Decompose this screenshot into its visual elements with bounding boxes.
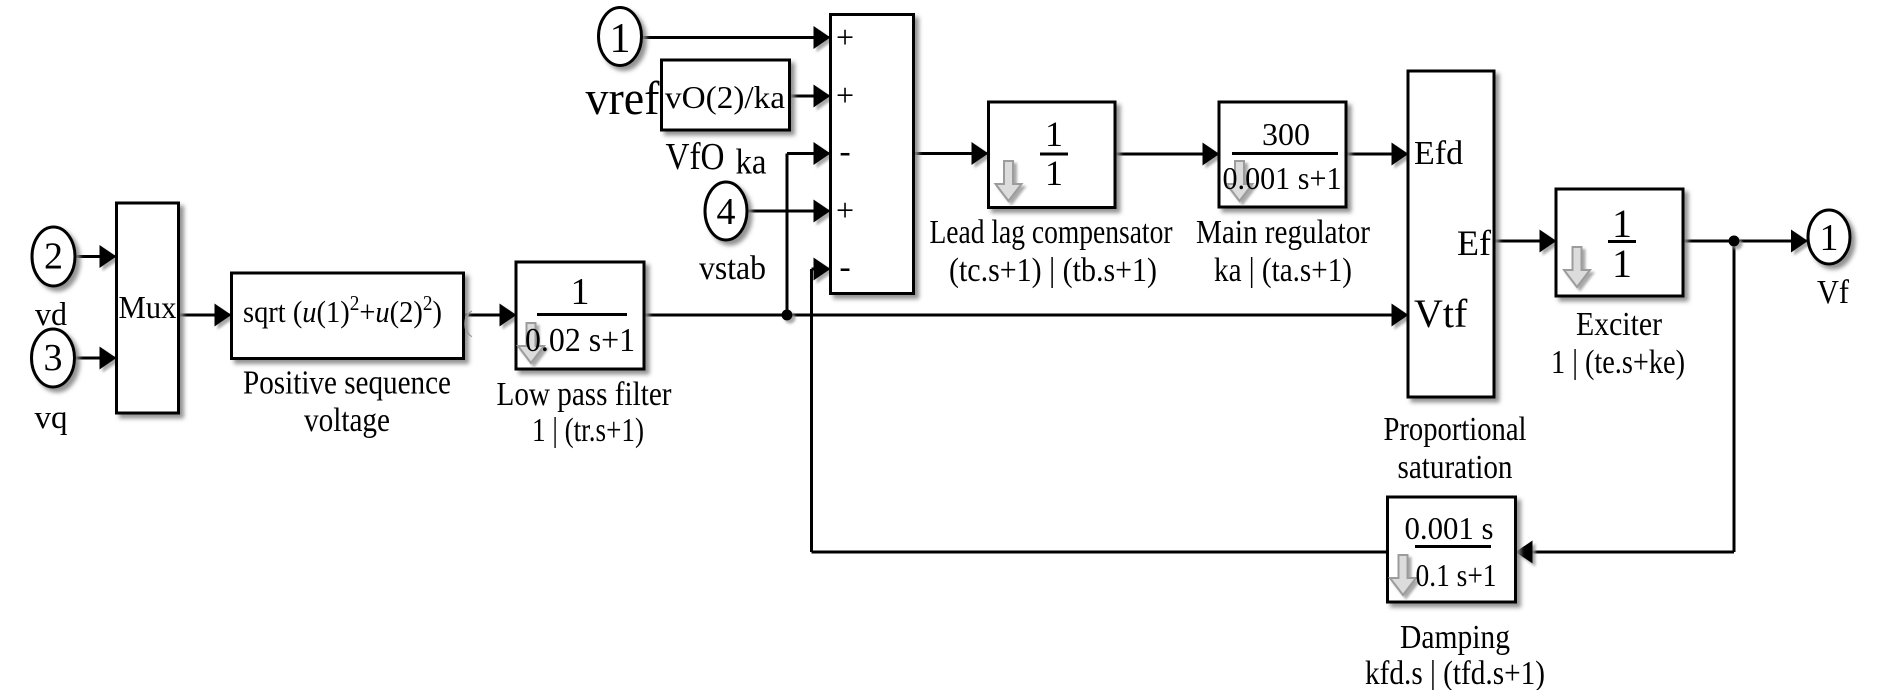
svg-text:3: 3	[44, 337, 63, 379]
svg-text:Exciter: Exciter	[1576, 306, 1663, 343]
svg-text:ka | (ta.s+1): ka | (ta.s+1)	[1214, 252, 1352, 289]
svg-text:Mux: Mux	[119, 289, 177, 325]
svg-text:Low pass filter: Low pass filter	[497, 376, 673, 413]
svg-text:vd: vd	[35, 297, 67, 333]
svg-text:+: +	[836, 19, 854, 55]
svg-text:Vf: Vf	[1817, 274, 1850, 311]
svg-text:VfO: VfO	[666, 136, 725, 178]
svg-text:(tc.s+1) | (tb.s+1): (tc.s+1) | (tb.s+1)	[949, 252, 1157, 289]
svg-text:0.02 s+1: 0.02 s+1	[525, 322, 635, 359]
svg-text:kfd.s | (tfd.s+1): kfd.s | (tfd.s+1)	[1365, 655, 1545, 690]
svg-text:(: (	[463, 305, 473, 338]
svg-text:saturation: saturation	[1398, 449, 1513, 486]
svg-text:Positive sequence: Positive sequence	[243, 365, 451, 402]
svg-text:0.001 s: 0.001 s	[1405, 510, 1494, 546]
svg-text:Efd: Efd	[1414, 135, 1463, 172]
svg-text:vq: vq	[35, 400, 68, 436]
svg-text:vO(2)/ka: vO(2)/ka	[665, 79, 785, 115]
svg-text:0.1 s+1: 0.1 s+1	[1416, 557, 1497, 593]
svg-text:Vtf: Vtf	[1414, 291, 1468, 336]
svg-text:vref: vref	[586, 72, 660, 125]
svg-text:4: 4	[717, 191, 736, 233]
svg-text:+: +	[836, 77, 854, 113]
svg-text:vstab: vstab	[699, 250, 766, 287]
svg-text:1: 1	[571, 271, 590, 313]
svg-text:Main regulator: Main regulator	[1196, 214, 1371, 251]
svg-text:1: 1	[1045, 114, 1063, 154]
svg-text:300: 300	[1262, 116, 1310, 152]
svg-text:1: 1	[610, 16, 631, 62]
svg-text:1 | (te.s+ke): 1 | (te.s+ke)	[1551, 344, 1685, 381]
svg-text:ka: ka	[736, 142, 767, 182]
svg-text:Ef: Ef	[1457, 223, 1491, 263]
svg-text:Proportional: Proportional	[1384, 411, 1527, 448]
svg-text:-: -	[839, 133, 850, 170]
svg-text:1: 1	[1612, 241, 1632, 286]
svg-text:0.001 s+1: 0.001 s+1	[1223, 160, 1342, 196]
svg-text:voltage: voltage	[304, 402, 390, 439]
svg-text:1 | (tr.s+1): 1 | (tr.s+1)	[532, 412, 644, 449]
svg-text:+: +	[836, 192, 854, 228]
svg-text:2: 2	[44, 236, 63, 278]
svg-text:1: 1	[1045, 153, 1063, 193]
svg-text:Damping: Damping	[1400, 619, 1510, 656]
svg-text:1: 1	[1820, 217, 1839, 259]
svg-text:sqrt (u(1)2+u(2)2): sqrt (u(1)2+u(2)2)	[243, 291, 442, 329]
svg-text:-: -	[839, 249, 850, 286]
svg-text:1: 1	[1612, 201, 1632, 246]
svg-text:Lead lag compensator: Lead lag compensator	[930, 214, 1174, 251]
